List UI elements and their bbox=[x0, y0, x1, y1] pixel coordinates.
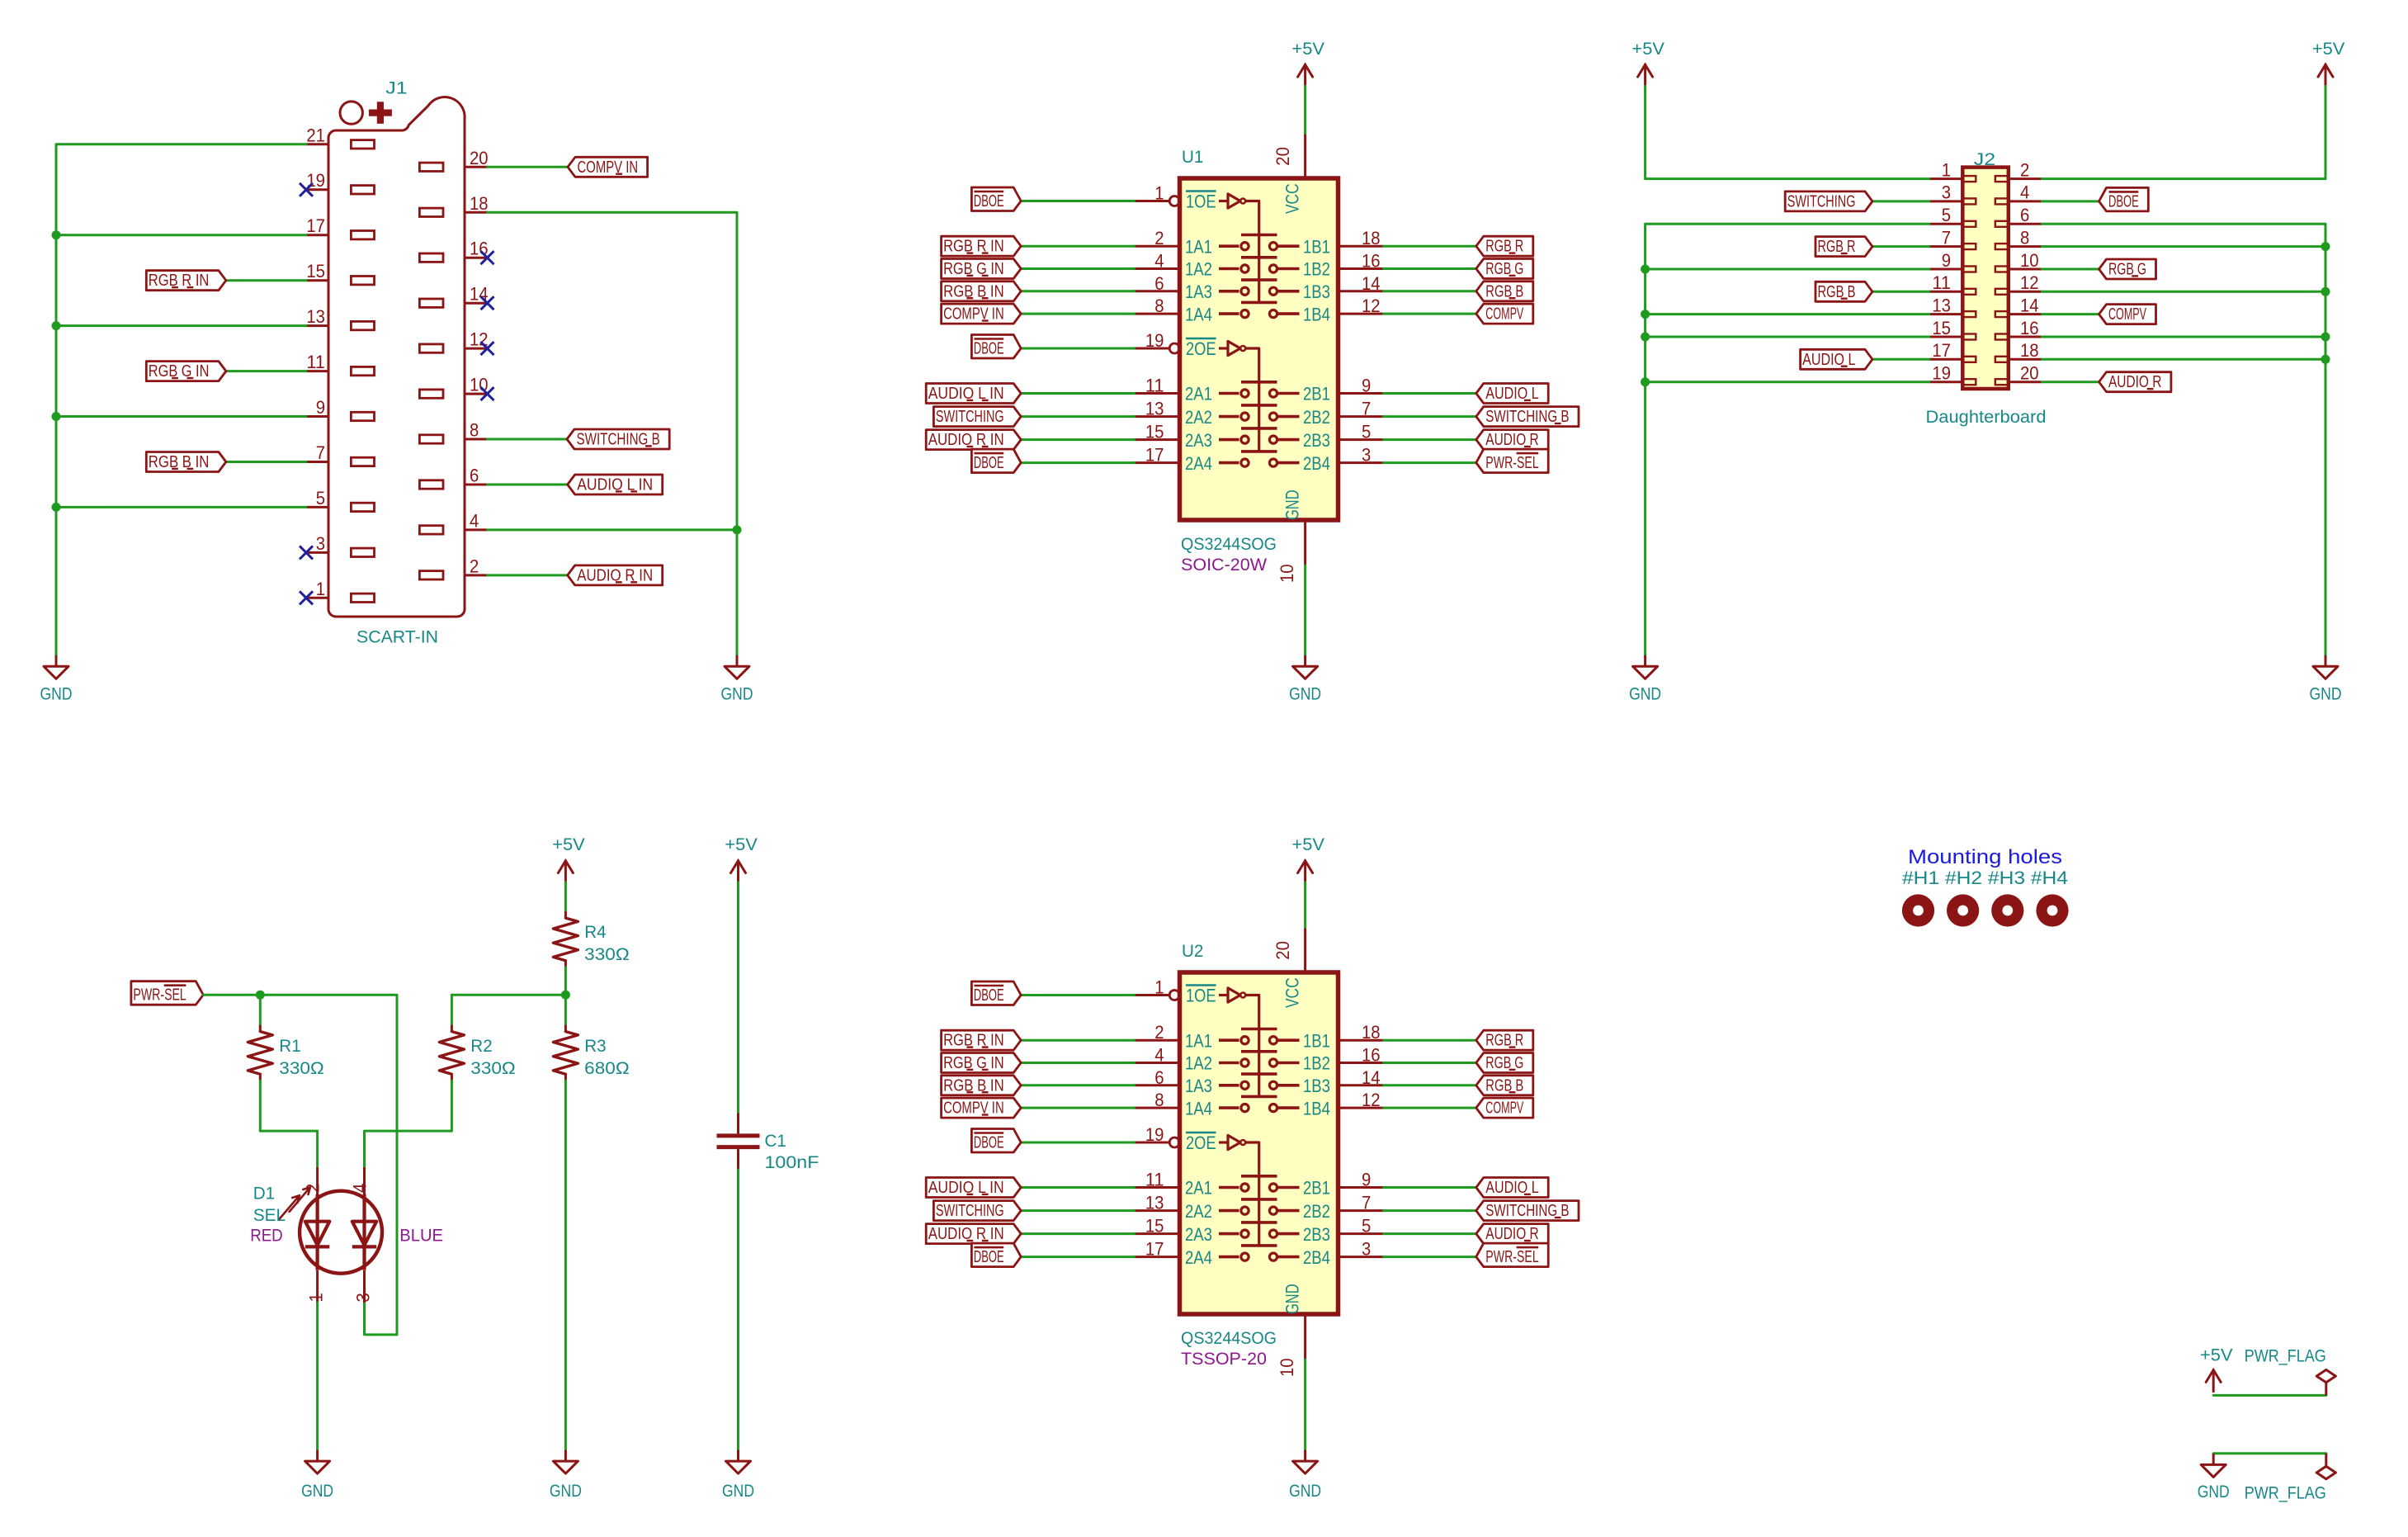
global label RGB_G bbox=[2099, 259, 2156, 279]
junction bbox=[2321, 287, 2330, 296]
svg-text:RGB G: RGB G bbox=[1485, 1054, 1523, 1072]
wire PWR-SEL net bbox=[203, 995, 397, 1335]
svg-text:2OE: 2OE bbox=[1186, 1133, 1216, 1153]
connector J1 SCART-IN bbox=[306, 79, 489, 647]
svg-text:2A1: 2A1 bbox=[1185, 384, 1212, 404]
wire pin to COMPV bbox=[1384, 1107, 1476, 1109]
svg-text:10: 10 bbox=[1277, 564, 1297, 583]
junction bbox=[52, 503, 61, 512]
svg-text:SCART-IN: SCART-IN bbox=[356, 628, 438, 647]
svg-text:15: 15 bbox=[1145, 1216, 1164, 1237]
svg-text:DBOE: DBOE bbox=[974, 1134, 1004, 1152]
svg-text:RGB R IN: RGB R IN bbox=[943, 1032, 1004, 1050]
svg-text:QS3244SOG: QS3244SOG bbox=[1181, 1329, 1277, 1348]
global label RGB_R bbox=[1476, 1030, 1533, 1050]
svg-text:1A4: 1A4 bbox=[1185, 1098, 1212, 1118]
ground GND (U1) bbox=[1289, 655, 1321, 704]
svg-text:11: 11 bbox=[1145, 376, 1164, 396]
svg-text:COMPV IN: COMPV IN bbox=[943, 305, 1004, 324]
global label DBOE bbox=[2099, 187, 2149, 211]
svg-text:SWITCHING: SWITCHING bbox=[1787, 192, 1856, 210]
global label RGB_G_IN bbox=[146, 362, 226, 381]
svg-text:330Ω: 330Ω bbox=[584, 945, 630, 964]
global label RGB_B_IN bbox=[942, 281, 1022, 301]
svg-text:U1: U1 bbox=[1182, 148, 1203, 167]
svg-text:2: 2 bbox=[2020, 159, 2029, 180]
svg-text:AUDIO R: AUDIO R bbox=[1485, 431, 1538, 449]
svg-text:9: 9 bbox=[1362, 1170, 1371, 1190]
power +5V (PWR_FLAG) bbox=[2200, 1346, 2233, 1392]
svg-text:1B3: 1B3 bbox=[1303, 281, 1330, 302]
power +5V (J2 right) bbox=[2312, 40, 2345, 86]
global label COMPV bbox=[1476, 304, 1533, 324]
global label RGB_R bbox=[1815, 237, 1872, 257]
capacitor C1 100nF bbox=[717, 1114, 819, 1173]
svg-text:AUDIO L: AUDIO L bbox=[1802, 351, 1855, 369]
svg-text:GND: GND bbox=[1289, 1482, 1321, 1501]
svg-text:1OE: 1OE bbox=[1186, 192, 1216, 212]
svg-text:2A4: 2A4 bbox=[1185, 1247, 1212, 1268]
svg-text:RED: RED bbox=[250, 1227, 283, 1246]
svg-text:8: 8 bbox=[1154, 1090, 1164, 1110]
resistor R1 330R bbox=[248, 1025, 324, 1081]
wire COMPV to J2 pin14 bbox=[2042, 313, 2099, 315]
svg-text:COMPV: COMPV bbox=[1485, 305, 1523, 324]
junction bbox=[1641, 377, 1650, 386]
svg-text:PWR-SEL: PWR-SEL bbox=[1485, 454, 1538, 472]
svg-text:C1: C1 bbox=[765, 1132, 786, 1151]
global label RGB_G_IN bbox=[942, 1053, 1022, 1073]
wire pin to AUDIO_R bbox=[1384, 438, 1476, 441]
ground GND (flag) bbox=[2198, 1454, 2230, 1502]
wire DBOE to pin bbox=[1021, 200, 1134, 202]
svg-text:10: 10 bbox=[1277, 1358, 1297, 1377]
svg-text:330Ω: 330Ω bbox=[279, 1059, 324, 1078]
svg-text:R4: R4 bbox=[584, 923, 607, 942]
wire AUDIO_L_IN to J1 pin6 bbox=[488, 484, 568, 486]
svg-text:GND: GND bbox=[721, 685, 753, 704]
svg-text:1: 1 bbox=[1154, 977, 1164, 998]
wire pin to PWR-SEL bbox=[1384, 461, 1476, 464]
svg-text:DBOE: DBOE bbox=[974, 1248, 1004, 1266]
wire DBOE to pin bbox=[1021, 1256, 1134, 1258]
svg-text:R2: R2 bbox=[470, 1037, 492, 1056]
mounting hole H2 bbox=[1947, 894, 1979, 926]
svg-text:1A1: 1A1 bbox=[1185, 236, 1212, 257]
svg-text:+5V: +5V bbox=[1291, 40, 1324, 59]
svg-text:+5V: +5V bbox=[2200, 1346, 2233, 1365]
wire J2 pin18 to rail bbox=[2042, 358, 2325, 361]
svg-text:3: 3 bbox=[1942, 182, 1951, 203]
no-connect pin 1 bbox=[300, 591, 313, 604]
svg-text:RGB R: RGB R bbox=[1485, 238, 1523, 256]
wire RGB_G_IN to J1 pin11 bbox=[226, 370, 306, 372]
svg-text:4: 4 bbox=[470, 510, 479, 531]
svg-text:17: 17 bbox=[306, 215, 325, 236]
svg-text:1A3: 1A3 bbox=[1185, 1076, 1212, 1096]
svg-text:D1: D1 bbox=[253, 1184, 275, 1203]
wire C1 to GND bbox=[737, 1170, 739, 1450]
global label AUDIO_L_IN bbox=[926, 384, 1021, 404]
svg-text:TSSOP-20: TSSOP-20 bbox=[1181, 1350, 1267, 1369]
svg-text:PWR-SEL: PWR-SEL bbox=[133, 986, 186, 1005]
svg-text:R1: R1 bbox=[279, 1037, 300, 1056]
wire pin to RGB_R bbox=[1384, 245, 1476, 248]
svg-text:15: 15 bbox=[306, 261, 325, 281]
wire J1 pin13 to rail bbox=[56, 324, 306, 327]
svg-text:J1: J1 bbox=[385, 79, 407, 98]
global label DBOE bbox=[971, 187, 1021, 211]
svg-text:RGB B IN: RGB B IN bbox=[149, 453, 210, 471]
wire AUDIO_L_IN to pin bbox=[1021, 392, 1134, 395]
wire AUDIO_R_IN to pin bbox=[1021, 1232, 1134, 1235]
svg-text:SWITCHING: SWITCHING bbox=[936, 1202, 1004, 1220]
power flag PWR_FLAG (GND) bbox=[2316, 1454, 2335, 1479]
wire DBOE to pin bbox=[1021, 1142, 1134, 1144]
wire SWITCHING to J2 pin3 bbox=[1872, 200, 1929, 202]
svg-text:AUDIO L IN: AUDIO L IN bbox=[928, 1179, 1004, 1197]
svg-text:RGB B IN: RGB B IN bbox=[943, 282, 1004, 300]
global label DBOE bbox=[971, 1129, 1021, 1153]
svg-text:AUDIO R: AUDIO R bbox=[1485, 1225, 1538, 1243]
svg-text:6: 6 bbox=[1154, 1067, 1164, 1088]
wire pin to PWR-SEL bbox=[1384, 1256, 1476, 1258]
svg-text:16: 16 bbox=[1362, 251, 1381, 272]
wire RGB_B_IN to pin bbox=[1021, 1084, 1134, 1086]
wire pin to AUDIO_L bbox=[1384, 1186, 1476, 1189]
wire U1 pin10 to GND bbox=[1304, 565, 1306, 655]
wire RGB_R to J2 pin7 bbox=[1872, 245, 1929, 248]
svg-text:AUDIO R: AUDIO R bbox=[2108, 373, 2161, 391]
wire RGB_G to J2 pin10 bbox=[2042, 268, 2099, 271]
power +5V (J2 left) bbox=[1631, 40, 1664, 86]
svg-text:SOIC-20W: SOIC-20W bbox=[1181, 556, 1267, 575]
svg-text:3: 3 bbox=[352, 1293, 373, 1302]
wire +5V to U1 pin20 bbox=[1304, 86, 1306, 133]
svg-text:RGB R: RGB R bbox=[1485, 1032, 1523, 1050]
svg-text:COMPV: COMPV bbox=[2108, 305, 2146, 324]
svg-text:12: 12 bbox=[1362, 1090, 1381, 1110]
power flag PWR_FLAG (+5V) bbox=[2316, 1369, 2335, 1395]
wire +5V to J2 pin1 bbox=[1645, 86, 1929, 178]
no-connect pin 12 bbox=[481, 342, 494, 355]
wire J2 pin9 to rail bbox=[1645, 268, 1929, 271]
svg-text:RGB B IN: RGB B IN bbox=[943, 1076, 1004, 1095]
wire R1 to LED pin2 bbox=[260, 1081, 317, 1167]
svg-text:2A4: 2A4 bbox=[1185, 453, 1212, 474]
svg-text:1: 1 bbox=[1154, 183, 1164, 204]
svg-text:3: 3 bbox=[1362, 445, 1371, 466]
power +5V (R4) bbox=[552, 835, 585, 882]
svg-text:+5V: +5V bbox=[1291, 835, 1324, 854]
wire J2 pin5 to GND rail bbox=[1645, 224, 1929, 655]
global label AUDIO_R bbox=[1476, 430, 1548, 450]
svg-text:680Ω: 680Ω bbox=[584, 1059, 630, 1078]
wire J2 pin13 to rail bbox=[1645, 313, 1929, 315]
global label RGB_R_IN bbox=[146, 271, 226, 291]
wire COMPV_IN to pin bbox=[1021, 313, 1134, 315]
svg-text:DBOE: DBOE bbox=[974, 340, 1004, 358]
svg-text:7: 7 bbox=[1362, 1193, 1371, 1213]
svg-text:1B2: 1B2 bbox=[1303, 259, 1330, 280]
junction bbox=[2321, 355, 2330, 364]
svg-text:2: 2 bbox=[1154, 228, 1164, 248]
svg-text:20: 20 bbox=[470, 148, 489, 168]
svg-text:13: 13 bbox=[1932, 295, 1951, 315]
wire J1 pin5 to rail bbox=[56, 506, 306, 508]
svg-text:RGB G IN: RGB G IN bbox=[943, 260, 1004, 278]
ground GND (J1 right rail) bbox=[721, 655, 753, 704]
wire J1 pin21 to GND rail bbox=[56, 144, 306, 656]
wire J2 pin6 to GND rail bbox=[2042, 224, 2325, 655]
svg-text:2B3: 2B3 bbox=[1303, 1224, 1330, 1245]
svg-text:3: 3 bbox=[316, 533, 325, 554]
IC U2 QS3244SOG TSSOP-20 bbox=[1135, 928, 1384, 1378]
wire pin to RGB_R bbox=[1384, 1039, 1476, 1042]
svg-text:8: 8 bbox=[2020, 227, 2029, 248]
global label AUDIO_L bbox=[1476, 384, 1548, 404]
svg-text:1B2: 1B2 bbox=[1303, 1053, 1330, 1074]
svg-text:14: 14 bbox=[1362, 1067, 1381, 1088]
wire R3 to GND bbox=[564, 1081, 567, 1450]
global label RGB_R_IN bbox=[942, 236, 1022, 256]
junction bbox=[256, 991, 265, 1000]
svg-text:Mounting holes: Mounting holes bbox=[1908, 846, 2062, 868]
svg-text:11: 11 bbox=[1932, 272, 1951, 293]
svg-text:18: 18 bbox=[1362, 228, 1381, 248]
svg-text:RGB G: RGB G bbox=[2108, 261, 2146, 279]
svg-text:17: 17 bbox=[1145, 445, 1164, 466]
svg-text:AUDIO L IN: AUDIO L IN bbox=[577, 476, 653, 494]
resistor R4 330R bbox=[553, 911, 629, 967]
wire J2 pin4 to DBOE bbox=[2042, 200, 2099, 202]
global label AUDIO_R_IN bbox=[926, 430, 1021, 450]
power +5V (U1) bbox=[1291, 40, 1324, 86]
wire R1 top bbox=[259, 995, 262, 1024]
svg-text:1A1: 1A1 bbox=[1185, 1030, 1212, 1051]
svg-text:AUDIO L: AUDIO L bbox=[1485, 1179, 1538, 1197]
junction bbox=[52, 230, 61, 239]
wire J1 pin17 to rail bbox=[56, 234, 306, 236]
global label RGB_B bbox=[1815, 281, 1872, 301]
svg-text:15: 15 bbox=[1932, 318, 1951, 338]
wire AUDIO_R_IN to pin bbox=[1021, 438, 1134, 441]
svg-text:2: 2 bbox=[1154, 1022, 1164, 1043]
svg-text:5: 5 bbox=[1362, 422, 1371, 442]
svg-text:6: 6 bbox=[2020, 205, 2029, 225]
svg-text:11: 11 bbox=[306, 352, 325, 372]
svg-text:20: 20 bbox=[1272, 147, 1293, 166]
svg-text:5: 5 bbox=[316, 488, 325, 508]
wire J1 pin4 to rail bbox=[488, 528, 738, 531]
svg-text:21: 21 bbox=[306, 125, 325, 145]
svg-text:PWR_FLAG: PWR_FLAG bbox=[2245, 1346, 2326, 1365]
wire J2 pin8 to rail bbox=[2042, 245, 2325, 248]
svg-text:14: 14 bbox=[2020, 295, 2039, 315]
svg-text:13: 13 bbox=[306, 306, 325, 327]
junction bbox=[561, 991, 570, 1000]
svg-text:1: 1 bbox=[306, 1293, 327, 1302]
svg-text:RGB B: RGB B bbox=[1485, 282, 1523, 300]
IC U1 QS3244SOG SOIC-20W bbox=[1135, 134, 1384, 584]
no-connect pin 10 bbox=[481, 387, 494, 400]
svg-text:+5V: +5V bbox=[552, 835, 585, 854]
wire COMPV_IN to J1 pin20 bbox=[488, 166, 568, 168]
global label COMPV bbox=[2099, 305, 2156, 324]
svg-text:18: 18 bbox=[470, 193, 489, 214]
svg-text:7: 7 bbox=[1362, 399, 1371, 419]
svg-text:6: 6 bbox=[470, 466, 479, 486]
wire pin to AUDIO_L bbox=[1384, 392, 1476, 395]
ground GND (J2 left rail) bbox=[1629, 655, 1661, 704]
svg-text:12: 12 bbox=[1362, 296, 1381, 316]
global label PWR-SEL bbox=[131, 981, 203, 1005]
svg-text:16: 16 bbox=[1362, 1045, 1381, 1066]
wire pin to SWITCHING_B bbox=[1384, 1209, 1476, 1212]
svg-text:AUDIO R IN: AUDIO R IN bbox=[928, 1225, 1004, 1243]
wire AUDIO_R_IN to J1 pin2 bbox=[488, 574, 568, 576]
ground GND (J2 right rail) bbox=[2310, 655, 2342, 704]
svg-text:RGB R IN: RGB R IN bbox=[149, 272, 210, 290]
mounting hole H1 bbox=[1902, 894, 1934, 926]
wire DBOE to pin bbox=[1021, 461, 1134, 464]
wire J2 pin16 to rail bbox=[2042, 336, 2325, 338]
wire pin to SWITCHING_B bbox=[1384, 415, 1476, 418]
svg-text:GND: GND bbox=[1282, 489, 1303, 520]
wire +5V to C1 bbox=[737, 882, 739, 1114]
svg-text:1A4: 1A4 bbox=[1185, 304, 1212, 324]
svg-text:RGB G: RGB G bbox=[1485, 260, 1523, 278]
global label SWITCHING_B bbox=[567, 429, 669, 449]
svg-text:RGB G IN: RGB G IN bbox=[149, 362, 210, 381]
wire J1 pin9 to rail bbox=[56, 415, 306, 418]
wire SWITCHING to pin bbox=[1021, 415, 1134, 418]
svg-text:17: 17 bbox=[1932, 340, 1951, 361]
global label AUDIO_L_IN bbox=[568, 475, 663, 494]
svg-text:4: 4 bbox=[1154, 251, 1164, 272]
svg-text:10: 10 bbox=[2020, 250, 2039, 271]
svg-text:RGB R: RGB R bbox=[1818, 238, 1856, 256]
svg-text:U2: U2 bbox=[1182, 942, 1203, 961]
svg-text:GND: GND bbox=[40, 685, 73, 704]
global label RGB_B_IN bbox=[146, 452, 226, 472]
svg-text:1B4: 1B4 bbox=[1303, 1098, 1330, 1118]
wire +5V to U2 pin20 bbox=[1304, 882, 1306, 928]
junction bbox=[1641, 265, 1650, 274]
svg-text:SEL: SEL bbox=[253, 1206, 286, 1225]
global label SWITCHING_B bbox=[1476, 1201, 1579, 1221]
svg-text:1A3: 1A3 bbox=[1185, 281, 1212, 302]
svg-text:COMPV IN: COMPV IN bbox=[578, 158, 639, 177]
svg-text:PWR-SEL: PWR-SEL bbox=[1485, 1248, 1538, 1266]
wire pin to RGB_B bbox=[1384, 290, 1476, 292]
no-connect pin 16 bbox=[481, 251, 494, 264]
wire J2 pin12 to rail bbox=[2042, 291, 2325, 293]
svg-text:VCC: VCC bbox=[1282, 183, 1303, 214]
svg-text:GND: GND bbox=[550, 1482, 582, 1501]
svg-text:R3: R3 bbox=[584, 1037, 606, 1056]
connector J2 Daughterboard bbox=[1926, 150, 2047, 427]
svg-text:+5V: +5V bbox=[2312, 40, 2345, 59]
svg-text:1OE: 1OE bbox=[1186, 986, 1216, 1006]
svg-text:2B2: 2B2 bbox=[1303, 1201, 1330, 1222]
svg-text:19: 19 bbox=[1145, 330, 1164, 351]
svg-text:2A3: 2A3 bbox=[1185, 430, 1212, 451]
power +5V (C1) bbox=[725, 835, 758, 882]
svg-text:2OE: 2OE bbox=[1186, 338, 1216, 359]
ground GND (U2) bbox=[1289, 1450, 1321, 1501]
ground GND (J1 left rail) bbox=[40, 655, 73, 704]
svg-text:COMPV: COMPV bbox=[1485, 1100, 1523, 1118]
ground GND (LED) bbox=[301, 1450, 333, 1501]
svg-text:1A2: 1A2 bbox=[1185, 1053, 1212, 1074]
wire RGB_B_IN to J1 pin7 bbox=[226, 461, 306, 463]
wire AUDIO_R to J2 pin20 bbox=[2042, 381, 2099, 383]
svg-text:+5V: +5V bbox=[1631, 40, 1664, 59]
resistor R2 330R bbox=[439, 1025, 515, 1081]
mounting hole H3 bbox=[1991, 894, 2023, 926]
wire SWITCHING to pin bbox=[1021, 1209, 1134, 1212]
svg-text:8: 8 bbox=[470, 420, 479, 441]
svg-text:1B1: 1B1 bbox=[1303, 1030, 1330, 1051]
junction bbox=[52, 321, 61, 330]
svg-text:DBOE: DBOE bbox=[974, 986, 1004, 1005]
wire J1 pin18 to GND rail bbox=[488, 212, 738, 655]
svg-text:DBOE: DBOE bbox=[974, 192, 1004, 210]
svg-text:15: 15 bbox=[1145, 422, 1164, 442]
wire J2 pin19 to rail bbox=[1645, 381, 1929, 383]
wire GND to PWR_FLAG bbox=[2213, 1452, 2326, 1454]
svg-text:9: 9 bbox=[1942, 250, 1951, 271]
power +5V (U2) bbox=[1291, 835, 1324, 882]
wire R2 to LED pin4 bbox=[365, 1081, 452, 1167]
svg-text:9: 9 bbox=[316, 397, 325, 418]
svg-text:2A3: 2A3 bbox=[1185, 1224, 1212, 1245]
wire AUDIO_L to J2 pin17 bbox=[1872, 358, 1929, 361]
junction bbox=[733, 525, 742, 534]
svg-text:2B1: 2B1 bbox=[1303, 384, 1330, 404]
global label COMPV bbox=[1476, 1098, 1533, 1118]
global label SWITCHING bbox=[1785, 192, 1872, 211]
svg-text:5: 5 bbox=[1942, 205, 1951, 225]
svg-text:COMPV IN: COMPV IN bbox=[943, 1100, 1004, 1118]
wire pin to RGB_G bbox=[1384, 267, 1476, 270]
svg-text:#H1 #H2 #H3 #H4: #H1 #H2 #H3 #H4 bbox=[1902, 868, 2068, 888]
wire SWITCHING_B to J1 pin8 bbox=[488, 438, 568, 441]
wire J2 pin15 to rail bbox=[1645, 336, 1929, 338]
global label AUDIO_R bbox=[1476, 1224, 1548, 1244]
svg-text:RGB B: RGB B bbox=[1818, 283, 1856, 301]
global label AUDIO_R_IN bbox=[926, 1224, 1021, 1244]
svg-text:BLUE: BLUE bbox=[399, 1227, 443, 1246]
svg-text:PWR_FLAG: PWR_FLAG bbox=[2245, 1483, 2326, 1502]
svg-text:7: 7 bbox=[316, 442, 325, 463]
svg-text:1B1: 1B1 bbox=[1303, 236, 1330, 257]
svg-text:2B1: 2B1 bbox=[1303, 1178, 1330, 1199]
ground GND (R3) bbox=[550, 1450, 582, 1501]
svg-text:1B4: 1B4 bbox=[1303, 304, 1330, 324]
svg-text:100nF: 100nF bbox=[765, 1153, 819, 1172]
svg-text:GND: GND bbox=[2310, 685, 2342, 704]
LED D1 dual RED/BLUE bbox=[250, 1167, 443, 1303]
svg-text:18: 18 bbox=[1362, 1022, 1381, 1043]
wire LED pin1 to GND bbox=[316, 1303, 319, 1450]
svg-text:2: 2 bbox=[470, 556, 479, 576]
svg-text:2B2: 2B2 bbox=[1303, 407, 1330, 428]
svg-text:6: 6 bbox=[1154, 273, 1164, 294]
no-connect pin 3 bbox=[300, 546, 313, 559]
svg-text:3: 3 bbox=[1362, 1239, 1371, 1260]
